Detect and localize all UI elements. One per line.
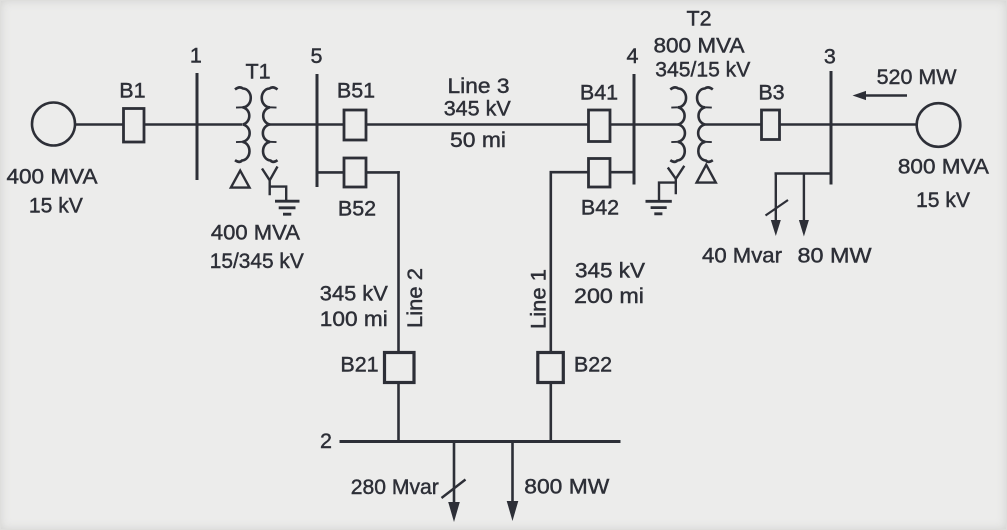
wire Line 3 (B51 to B41) bbox=[366, 123, 589, 126]
svg-text:800 MW: 800 MW bbox=[524, 475, 610, 499]
bus 1 bbox=[196, 73, 199, 180]
bus 2 bbox=[340, 440, 621, 443]
wire B3 to bus 3 to generator G2 bbox=[780, 123, 917, 126]
generator G1 bbox=[32, 103, 75, 146]
load arrow 80 MW at bus 3 bbox=[803, 174, 805, 223]
svg-text:400 MVA: 400 MVA bbox=[211, 220, 301, 244]
wire T2 to breaker B3 bbox=[705, 123, 762, 126]
slash on 40 Mvar load arrow bbox=[766, 200, 789, 216]
wire T1 neutral to ground bbox=[270, 187, 287, 200]
svg-text:B1: B1 bbox=[119, 79, 145, 103]
wire Line 2 bbox=[397, 171, 400, 353]
breaker B3 bbox=[762, 110, 780, 140]
breaker B41 bbox=[589, 110, 611, 142]
wire B42 to bus 4 bbox=[610, 171, 634, 174]
svg-text:4: 4 bbox=[627, 44, 639, 68]
svg-text:400 MVA: 400 MVA bbox=[7, 165, 99, 189]
svg-text:50 mi: 50 mi bbox=[450, 128, 506, 152]
generator G2 bbox=[917, 103, 961, 147]
svg-text:520 MW: 520 MW bbox=[877, 65, 958, 89]
bus 4 bbox=[633, 74, 636, 185]
breaker B51 bbox=[344, 110, 366, 140]
svg-text:15 kV: 15 kV bbox=[916, 188, 971, 212]
ground symbol T2 bbox=[646, 201, 672, 214]
svg-text:B22: B22 bbox=[574, 353, 612, 377]
wye symbol T2 high side bbox=[668, 166, 685, 195]
ground symbol T1 bbox=[275, 201, 300, 214]
bus 5 bbox=[316, 74, 319, 187]
breaker B52 bbox=[344, 158, 366, 187]
svg-text:Line 2: Line 2 bbox=[403, 268, 427, 328]
svg-text:Line 3: Line 3 bbox=[448, 74, 510, 98]
svg-text:200 mi: 200 mi bbox=[574, 284, 644, 308]
load arrow 40 Mvar at bus 3 bbox=[775, 173, 777, 223]
bus 3 bbox=[830, 71, 833, 185]
wye symbol T1 high side bbox=[262, 167, 278, 196]
wire B41 to bus 4 to transformer T2 bbox=[610, 123, 678, 126]
svg-text:800 MVA: 800 MVA bbox=[654, 34, 746, 58]
svg-text:B41: B41 bbox=[580, 81, 618, 105]
delta symbol T1 low side bbox=[231, 171, 250, 188]
svg-text:Line 1: Line 1 bbox=[527, 269, 551, 329]
wire T2 neutral to ground bbox=[659, 183, 676, 201]
svg-text:345/15 kV: 345/15 kV bbox=[655, 58, 751, 82]
svg-text:80 MW: 80 MW bbox=[798, 244, 873, 268]
wire Line 1 bbox=[549, 171, 552, 353]
svg-text:T2: T2 bbox=[686, 7, 711, 31]
svg-text:280 Mvar: 280 Mvar bbox=[351, 475, 439, 499]
arrow 520 MW into bus 3 bbox=[864, 94, 907, 97]
slash on 280 Mvar load arrow bbox=[442, 480, 466, 499]
svg-text:15 kV: 15 kV bbox=[29, 194, 84, 218]
svg-text:15/345 kV: 15/345 kV bbox=[210, 249, 305, 273]
svg-text:100 mi: 100 mi bbox=[320, 307, 388, 331]
wire bus 5 to breaker B52 bbox=[317, 171, 345, 174]
svg-text:40 Mvar: 40 Mvar bbox=[702, 244, 782, 268]
wire B22 to bus 2 bbox=[549, 382, 552, 442]
svg-text:3: 3 bbox=[824, 45, 836, 69]
wire B1 to bus 1 to transformer T1 bbox=[144, 123, 242, 126]
wire B52 to Line 2 corner bbox=[366, 171, 399, 174]
breaker B1 bbox=[124, 109, 145, 143]
transformer T1 primary winding bbox=[235, 87, 251, 162]
wire Line 1 corner to breaker B42 bbox=[551, 171, 589, 174]
svg-text:B3: B3 bbox=[758, 81, 784, 105]
wire T1 to bus 5 to breaker B51 bbox=[270, 123, 345, 126]
svg-text:345 kV: 345 kV bbox=[575, 259, 646, 283]
wire B21 to bus 2 bbox=[397, 382, 400, 442]
delta symbol T2 low side bbox=[697, 165, 716, 183]
wire generator G1 to breaker B1 bbox=[76, 123, 125, 126]
svg-text:345 kV: 345 kV bbox=[444, 97, 512, 121]
load arrow 800 MW at bus 2 bbox=[511, 442, 514, 504]
svg-text:T1: T1 bbox=[245, 60, 270, 84]
breaker B22 bbox=[538, 353, 564, 383]
svg-text:5: 5 bbox=[311, 44, 323, 68]
breaker B21 bbox=[385, 353, 415, 383]
transformer T1 secondary winding bbox=[262, 87, 278, 162]
svg-text:B51: B51 bbox=[337, 79, 375, 103]
breaker B42 bbox=[589, 159, 611, 188]
svg-text:B21: B21 bbox=[340, 353, 378, 377]
svg-text:800 MVA: 800 MVA bbox=[898, 155, 990, 179]
svg-text:B52: B52 bbox=[338, 197, 376, 221]
svg-text:2: 2 bbox=[320, 429, 332, 453]
svg-text:B42: B42 bbox=[581, 196, 619, 220]
load arrow 280 Mvar at bus 2 bbox=[453, 442, 456, 505]
transformer T2 primary winding bbox=[670, 87, 686, 162]
svg-text:1: 1 bbox=[190, 44, 202, 68]
transformer T2 secondary winding bbox=[697, 87, 713, 162]
wire load tap at bus 3 bbox=[775, 172, 832, 174]
svg-text:345 kV: 345 kV bbox=[320, 282, 389, 306]
